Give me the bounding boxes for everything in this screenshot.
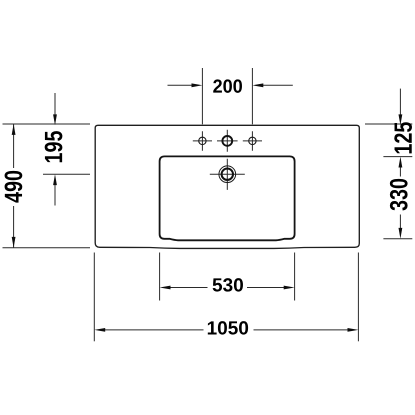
drain crosshair [210,159,245,190]
faucet hole center [222,136,232,146]
dim 125/330 mid extension line (basin top) [383,156,412,158]
dim 195 bottom extension line (drain axis) [43,173,90,175]
dim 530 arrowhead right [284,286,295,290]
dim 125 top extension line [365,123,412,125]
dim 530 dimension line [170,287,284,289]
faucet hole right crosshair [243,131,262,150]
faucet hole left [199,137,206,144]
faucet hole center crosshair [217,130,238,152]
dim 200 arrowhead left [192,83,203,87]
label 330 [390,179,408,211]
dim 490 arrowhead top [12,124,16,135]
dim 490 dimension line [13,124,15,248]
dim 200 leader left [168,84,194,86]
label 125 [394,122,412,153]
dim 200 arrowhead right [252,83,263,87]
label 1050 [208,321,248,334]
dim 1050 extension line right [357,253,359,342]
dim 490 bottom extension line [3,247,91,249]
drain inner circle [222,169,233,180]
label 490 [5,171,23,203]
inner basin outline [160,156,295,240]
dim 195 arrowhead top [53,114,57,125]
dim 200 leader right [262,84,293,86]
label 195 [45,131,63,162]
dim 330 arrowhead bottom [399,228,403,239]
dim 1050 dimension line [105,329,349,331]
dim 530 extension line right [294,253,296,301]
dim 195 arrow tails [54,93,56,206]
dim 1050 arrowhead right [348,328,359,332]
label 200 [213,79,242,92]
dim 530 arrowhead left [160,286,171,290]
faucet hole left crosshair [193,131,212,150]
dim 330 bottom extension line (basin bottom) [383,238,412,240]
dim 125 arrow tail [399,89,401,115]
dim 125 arrowhead [399,114,403,125]
faucet hole right [249,137,256,144]
dim 330 dimension line [399,167,401,229]
dim 1050 extension line left [93,253,95,342]
drain outer circle [219,166,236,183]
dim 490 arrowhead bottom [12,237,16,248]
dim 200 extension line right [251,68,253,124]
dim 1050 arrowhead left [94,328,105,332]
dim 490/195 top extension line [3,123,91,125]
dim 330 arrowhead top [399,157,403,168]
dim 200 extension line left [201,68,203,124]
washbasin outer outline [95,125,359,248]
label 530 [213,278,243,291]
dim 195 arrowhead bottom [53,174,57,185]
dim 530 extension line left [159,253,161,301]
